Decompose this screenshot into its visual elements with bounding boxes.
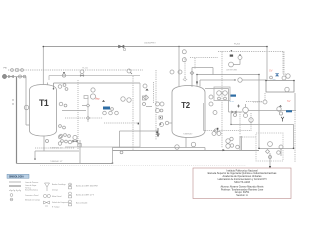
pump box (214, 87, 230, 101)
wire dashed y130.5 (204, 130, 251, 132)
svg-text:FW: FW (4, 68, 7, 70)
wire vert to bottom header (79, 140, 81, 163)
legend line vapor (9, 185, 21, 187)
lower right pump box dashed (256, 133, 283, 161)
wire inlet line (7, 76, 27, 78)
valve dark glyph (102, 100, 105, 102)
instrument circles on right line (277, 107, 281, 111)
legend funnel pump (45, 183, 50, 191)
wire T1 drain (43, 136, 45, 151)
instrument circles pair y104 (156, 102, 160, 106)
valve bowtie small (232, 111, 237, 113)
pump cluster mid-right (226, 139, 230, 143)
title block (193, 168, 291, 199)
tank T2 (172, 86, 205, 138)
svg-text:SICA TK-A203: SICA TK-A203 (234, 181, 250, 184)
legend panel conn (10, 194, 13, 197)
pump P-2 cluster (243, 107, 249, 113)
wire T1 bottom line (35, 150, 79, 152)
svg-text:Drenaje: Drenaje (52, 189, 58, 192)
instrument circle x284 (282, 76, 286, 80)
instrument circles right of T2 (209, 95, 213, 99)
instrument circles pair y110 (156, 109, 160, 113)
svg-text:Banco Variable: Banco Variable (76, 201, 87, 204)
valve square drain (78, 144, 81, 147)
svg-text:T1: T1 (39, 98, 49, 108)
arrow into T2 line (157, 128, 159, 137)
wire right water line (249, 110, 297, 112)
instrument circle inlet (19, 75, 22, 78)
wire transfer pipe T1->T2 (120, 130, 159, 132)
instrument circles T1 right cluster (58, 85, 62, 89)
svg-text:Senal Neumatica: Senal Neumatica (25, 189, 38, 192)
svg-text:SV: SV (269, 69, 273, 73)
wire dashed long vertical x222 (221, 52, 223, 149)
wire dashed vert x251 (250, 113, 252, 131)
pump cluster at T1 outlet (59, 134, 62, 137)
instrument FI on riser (182, 50, 186, 54)
transmitter box (159, 116, 163, 119)
wire line right of tank (62, 110, 86, 112)
legend inst stack 3 (69, 200, 72, 203)
svg-text:Bomba Centrifuga: Bomba Centrifuga (52, 183, 66, 186)
wire drain drop (34, 151, 36, 158)
valve diamonds column x88 (87, 97, 89, 122)
legend inst stack 2 (69, 192, 72, 195)
box right and bottom (65, 83, 140, 147)
wire double vert x240 (240, 136, 242, 151)
wire dashed bottom long (40, 165, 246, 167)
wire x228 drop (228, 89, 230, 113)
wire dashed long vertical x133 (132, 76, 134, 150)
svg-text:TUBERIA 1 1/2": TUBERIA 1 1/2" (50, 160, 63, 163)
svg-text:Bomba de 1/4HP, 127 V: Bomba de 1/4HP, 127 V (76, 194, 95, 196)
wire vapor out line (197, 74, 259, 76)
valve V-1 inline on top line (119, 45, 126, 51)
node junction T2 feed (178, 46, 179, 47)
controller blue bar right1 (231, 95, 237, 97)
instrument circle on outer line (62, 74, 65, 77)
instrument circle y124 (160, 123, 164, 127)
wire dashed above bottom line (35, 147, 75, 149)
wire top main supply line (43, 46, 267, 48)
instrument PT-204 (230, 55, 233, 57)
instrument circle right (286, 74, 290, 78)
legend SIMBOLOGIA (7, 174, 98, 208)
svg-text:E: Tanque: E: Tanque (52, 207, 60, 209)
nozzle stub T1 top (47, 83, 49, 86)
legend valve (44, 201, 50, 204)
svg-text:Motor Diesel: Motor Diesel (52, 195, 62, 198)
instrument circles mid (91, 88, 95, 92)
svg-text:SV: SV (287, 99, 291, 103)
wire riser to transfer line (112, 148, 114, 164)
valve solenoid blue (275, 74, 279, 77)
wire dashed vertical x155 (155, 70, 157, 140)
valve pair right of T2 (212, 132, 216, 136)
valve hand left (11, 69, 14, 72)
arrow right glyph (223, 149, 225, 151)
legend inst stack 1 (69, 183, 72, 186)
wire long transfer line (113, 150, 260, 152)
T1 instrument zone outer line (49, 75, 140, 77)
svg-text:LIT: LIT (69, 184, 71, 186)
instrument circles under T2 (175, 145, 179, 149)
wire main cold water downcomer (16, 77, 18, 164)
wire return line y124 (231, 123, 294, 125)
wire T2 bottom line (113, 148, 206, 151)
wire riser to tank T1 (42, 47, 44, 87)
control valve pair (121, 97, 125, 101)
legend line proceso (9, 181, 21, 183)
dark glyph figure (237, 105, 239, 108)
legend pneumatic (9, 190, 21, 192)
valve inlet bowtie (9, 75, 14, 78)
wire T2 drain (185, 138, 187, 148)
svg-text:Valvula de Compuerta: Valvula de Compuerta (52, 201, 69, 204)
svg-text:Seccion: A: Seccion: A (236, 194, 248, 197)
wire dashed pneumatic top right (218, 52, 286, 75)
pump P-3 cluster (268, 142, 273, 147)
svg-text:SIMBOLOGIA: SIMBOLOGIA (9, 176, 24, 179)
instrument rotameter on bypass (24, 105, 28, 109)
instrument circles above T2 (170, 70, 174, 74)
svg-text:Linea de Proceso: Linea de Proceso (25, 181, 38, 184)
wire drain w arrow (269, 153, 271, 166)
wire condensate line (200, 79, 235, 81)
svg-text:Conexion a Panel: Conexion a Panel (25, 195, 39, 197)
svg-text:xx xx: xx xx (230, 101, 234, 103)
svg-text:Montado en Campo: Montado en Campo (25, 198, 40, 201)
instrument circles outside box left (58, 135, 61, 138)
svg-text:Vap: Vap (95, 97, 100, 101)
controller blue bar LIC-101 (103, 107, 110, 110)
wire bottom header (17, 163, 113, 165)
pump feed inlet (3, 75, 7, 79)
actuator Y dark (281, 117, 284, 122)
wire dashed right edge (294, 110, 296, 162)
svg-text:TK-101: TK-101 (82, 68, 88, 70)
legend header (7, 174, 29, 178)
wire dashed vertical x78 (77, 80, 79, 150)
wire dashed y137 (240, 136, 256, 138)
svg-text:Bomba de 1/4HP, 1800 RPM: Bomba de 1/4HP, 1800 RPM (76, 185, 98, 187)
wire dashed y57 (190, 57, 218, 59)
valve diamond on dashed (183, 57, 187, 81)
controller blue bar right2 (286, 110, 292, 112)
wire condenser outlet (258, 75, 260, 149)
wire dashed vert x240 (239, 112, 241, 135)
wire dashed inside box (65, 117, 103, 119)
legend field conn (10, 198, 13, 201)
valve with actuator on outer line (80, 70, 84, 74)
wire riser to tank T2 (178, 47, 180, 87)
condenser box E-1 (266, 81, 294, 93)
svg-text:CW RETURN: CW RETURN (226, 70, 238, 72)
svg-text:TUBERIA 1": TUBERIA 1" (183, 133, 193, 136)
control valve assembly between tanks (143, 84, 147, 88)
legend motor (43, 194, 46, 197)
instrument circle on transfer (120, 151, 123, 154)
tank T1 (30, 85, 57, 137)
dark glyph (156, 132, 158, 134)
instrument circle mid (165, 121, 168, 124)
instrument LG under T1 (46, 140, 49, 143)
svg-text:CW-SUPPLY: CW-SUPPLY (144, 43, 156, 45)
wire T2 vapor line (205, 88, 229, 90)
valve at T1 outlet (73, 140, 78, 142)
wire bypass loop (26, 77, 30, 126)
svg-text:xxx: xxx (273, 79, 276, 81)
wire right drop to condenser (266, 47, 268, 81)
svg-text:PI-204: PI-204 (234, 44, 241, 46)
wire dashed instrument air header (8, 69, 143, 71)
valve diamond above T2 (192, 68, 213, 75)
instrument circles under controller (103, 111, 107, 115)
wire dashed vert x284 (283, 52, 285, 76)
svg-text:T2: T2 (181, 101, 190, 110)
wire U pipe bottom right (259, 124, 294, 148)
dark glyph small (279, 105, 282, 107)
T1 instrument zone inner line (54, 82, 141, 84)
